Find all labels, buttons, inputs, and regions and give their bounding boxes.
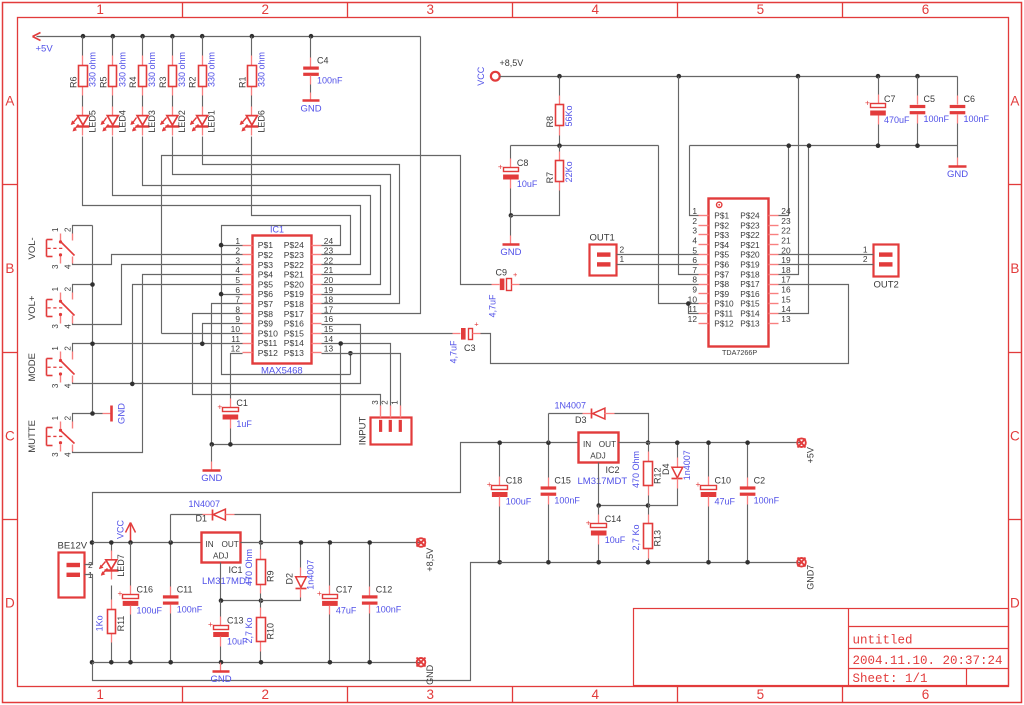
svg-text:1N4007: 1N4007 xyxy=(189,499,221,509)
wire branch to IC1 pin9 xyxy=(203,324,243,344)
wire ADJ IC2 down xyxy=(599,463,649,506)
junction xyxy=(200,34,205,39)
svg-text:C3: C3 xyxy=(464,343,476,353)
svg-text:100nF: 100nF xyxy=(924,114,950,124)
wire D2 bottom to ADJ node xyxy=(261,598,301,601)
svg-text:2: 2 xyxy=(863,254,868,264)
junction xyxy=(675,440,680,445)
svg-text:4: 4 xyxy=(692,236,697,246)
LED LED6 xyxy=(251,96,253,107)
svg-text:P$5: P$5 xyxy=(258,279,274,289)
LED LED5 xyxy=(82,96,84,107)
svg-text:330 ohm: 330 ohm xyxy=(88,52,98,87)
svg-text:2,7 Ko: 2,7 Ko xyxy=(631,524,641,550)
svg-text:B: B xyxy=(5,261,14,276)
svg-text:22: 22 xyxy=(324,255,334,265)
wire VCC to TDA pin7 xyxy=(679,77,699,275)
wire +8,5V rail right part xyxy=(241,542,421,544)
svg-text:P$1: P$1 xyxy=(714,211,729,221)
supply flag +5V xyxy=(797,438,806,447)
resistor R1 330 ohm xyxy=(251,37,253,56)
svg-text:18: 18 xyxy=(781,265,791,275)
svg-text:P$6: P$6 xyxy=(714,260,729,270)
svg-text:12: 12 xyxy=(688,314,698,324)
svg-text:LED3: LED3 xyxy=(147,110,157,133)
svg-text:GND7: GND7 xyxy=(806,565,816,590)
svg-text:OUT2: OUT2 xyxy=(874,280,899,291)
svg-text:D: D xyxy=(1010,595,1020,610)
junction xyxy=(596,503,601,508)
svg-text:P$13: P$13 xyxy=(284,348,304,358)
svg-text:P$12: P$12 xyxy=(258,348,278,358)
svg-text:100nF: 100nF xyxy=(554,495,580,505)
svg-text:5: 5 xyxy=(235,275,240,285)
junction xyxy=(677,74,682,79)
wire C9 to TDA pin8 xyxy=(520,284,699,286)
svg-text:10uF: 10uF xyxy=(517,179,538,189)
capacitor C7 470uF xyxy=(878,77,880,95)
svg-text:22Ko: 22Ko xyxy=(564,161,574,182)
svg-text:P$17: P$17 xyxy=(740,279,760,289)
svg-text:P$20: P$20 xyxy=(284,279,304,289)
svg-text:1n4007: 1n4007 xyxy=(306,560,316,590)
wire R8 node to TDA pins 10 11 xyxy=(659,146,699,304)
svg-text:GND: GND xyxy=(201,473,222,484)
svg-text:P$2: P$2 xyxy=(258,250,274,260)
svg-text:4: 4 xyxy=(235,265,240,275)
wire IC1 pin15 to C3 xyxy=(322,333,453,335)
svg-text:9: 9 xyxy=(692,285,697,295)
svg-text:P$3: P$3 xyxy=(258,260,274,270)
svg-text:C13: C13 xyxy=(227,615,244,625)
svg-text:330 ohm: 330 ohm xyxy=(256,52,266,87)
wire MODE pin2 to IC1 pin11 xyxy=(73,344,243,352)
svg-text:P$10: P$10 xyxy=(258,328,278,338)
junction xyxy=(219,292,224,297)
svg-text:ADJ: ADJ xyxy=(213,552,228,561)
svg-text:P$10: P$10 xyxy=(714,299,734,309)
wire LED to IC1 xyxy=(203,137,400,304)
svg-text:+: + xyxy=(317,588,322,598)
wire D1 right to output xyxy=(235,515,261,543)
switch VOL+ xyxy=(60,293,62,300)
svg-text:R3: R3 xyxy=(158,76,168,88)
svg-text:A: A xyxy=(5,93,14,108)
junction xyxy=(299,540,304,545)
svg-text:330 ohm: 330 ohm xyxy=(177,52,187,87)
capacitor C8 10uF xyxy=(510,146,512,159)
wire +8,5V rail xyxy=(500,76,958,78)
svg-text:untitled: untitled xyxy=(853,634,913,648)
svg-text:8: 8 xyxy=(235,304,240,314)
svg-text:14: 14 xyxy=(781,304,791,314)
svg-text:23: 23 xyxy=(781,216,791,226)
junction xyxy=(130,382,135,387)
junction xyxy=(338,341,343,346)
svg-text:+: + xyxy=(474,319,479,328)
wire +5V rail xyxy=(619,442,802,444)
junction xyxy=(706,440,711,445)
svg-text:4,7uF: 4,7uF xyxy=(488,294,498,318)
svg-text:2: 2 xyxy=(63,346,72,351)
wire IC1 pin8 to INPUT pin3 xyxy=(193,314,381,406)
IC1 pins xyxy=(243,245,253,247)
svg-text:LED7: LED7 xyxy=(116,554,126,577)
wire IC1 pin6 left xyxy=(222,294,243,296)
junction xyxy=(786,143,791,148)
svg-text:D3: D3 xyxy=(575,415,587,425)
svg-text:16: 16 xyxy=(324,314,334,324)
svg-text:47uF: 47uF xyxy=(715,496,736,506)
svg-text:C17: C17 xyxy=(336,584,353,594)
svg-text:1: 1 xyxy=(51,346,60,351)
svg-text:LED5: LED5 xyxy=(88,110,98,133)
svg-text:C15: C15 xyxy=(554,475,571,485)
wire D3 right to output xyxy=(615,414,649,443)
svg-text:2: 2 xyxy=(620,244,625,254)
wire VOL+ pin2 to column xyxy=(73,285,93,293)
svg-text:+8,5V: +8,5V xyxy=(425,548,435,572)
wire VOL+ pin4 to IC1 pin3 xyxy=(73,265,243,325)
wire ADJ down xyxy=(221,563,261,601)
svg-text:P$13: P$13 xyxy=(740,318,760,328)
wire MUTTE pin2 to ground xyxy=(73,414,103,422)
svg-text:10uF: 10uF xyxy=(605,535,626,545)
capacitor C3 4,7uF xyxy=(453,333,461,335)
junction xyxy=(90,411,95,416)
wire OUT1 pin1 to TDA pin6 xyxy=(617,264,699,266)
capacitor C17 47uF xyxy=(329,543,331,586)
diode D3 1N4007 xyxy=(548,414,550,443)
LED LED7 xyxy=(111,543,113,552)
svg-text:1: 1 xyxy=(96,2,104,17)
wire IC1 pin14 row to INPUT pin2 xyxy=(322,344,391,406)
svg-text:4: 4 xyxy=(63,324,72,329)
junction xyxy=(200,342,205,347)
junction xyxy=(219,243,224,248)
capacitor C12 100nF xyxy=(369,543,371,587)
capacitor C11 100nF xyxy=(170,543,172,587)
junction xyxy=(259,660,264,665)
junction xyxy=(509,213,514,218)
junction xyxy=(210,442,215,447)
junction xyxy=(706,560,711,565)
svg-text:3: 3 xyxy=(692,226,697,236)
junction xyxy=(128,660,133,665)
junction xyxy=(557,74,562,79)
junction xyxy=(876,143,881,148)
capacitor C5 100nF xyxy=(917,77,919,96)
resistor R6 330 ohm xyxy=(82,37,84,56)
svg-text:C11: C11 xyxy=(177,584,193,594)
svg-text:P$7: P$7 xyxy=(714,269,729,279)
svg-text:1: 1 xyxy=(51,227,60,232)
svg-text:+8,5V: +8,5V xyxy=(500,58,524,68)
svg-text:GND: GND xyxy=(425,664,435,685)
junction xyxy=(259,598,264,603)
svg-text:10: 10 xyxy=(231,324,241,334)
svg-text:P$22: P$22 xyxy=(740,230,760,240)
wire TDA pin11 branch xyxy=(689,304,699,314)
svg-text:3: 3 xyxy=(426,2,434,17)
diode D1 1N4007 xyxy=(170,515,172,543)
svg-text:P$14: P$14 xyxy=(740,309,760,319)
wire IC1 pin7 to ground row xyxy=(212,304,243,445)
svg-text:1N4007: 1N4007 xyxy=(555,401,587,411)
svg-text:IN: IN xyxy=(206,540,214,549)
wire wiper net riser x162 xyxy=(162,156,492,334)
svg-text:OUT: OUT xyxy=(222,540,239,549)
resistor R9 470 Ohm xyxy=(260,543,262,550)
svg-text:2: 2 xyxy=(63,415,72,420)
wire LED to IC1 xyxy=(173,137,391,295)
wire R7 bottom to C8 xyxy=(511,191,560,216)
frame row ticks left xyxy=(3,184,18,186)
svg-text:24: 24 xyxy=(781,206,791,216)
svg-text:BE12V: BE12V xyxy=(58,541,88,552)
svg-text:C14: C14 xyxy=(605,514,622,524)
svg-text:3: 3 xyxy=(51,324,60,329)
svg-text:2: 2 xyxy=(261,687,269,702)
resistor R8 56Ko xyxy=(559,77,561,96)
svg-text:19: 19 xyxy=(324,285,334,295)
resistor R3 330 ohm xyxy=(172,37,174,56)
svg-text:1uF: 1uF xyxy=(236,419,252,429)
svg-text:P$23: P$23 xyxy=(740,220,760,230)
svg-text:1: 1 xyxy=(391,400,400,405)
svg-text:470 Ohm: 470 Ohm xyxy=(244,549,254,586)
svg-text:P$4: P$4 xyxy=(714,240,729,250)
junction xyxy=(219,598,224,603)
svg-text:P$22: P$22 xyxy=(284,260,304,270)
wire IC1 pin12 to C1 xyxy=(231,354,243,399)
svg-text:C5: C5 xyxy=(924,94,936,104)
wire MUTTE pin4 to IC1 pin4 xyxy=(73,275,243,453)
junction xyxy=(646,503,651,508)
svg-text:6: 6 xyxy=(692,255,697,265)
svg-text:P$1: P$1 xyxy=(258,240,274,250)
junction xyxy=(228,442,233,447)
resistor R2 330 ohm xyxy=(202,37,204,56)
supply flag GND PSU1 xyxy=(417,658,426,667)
svg-text:P$18: P$18 xyxy=(284,299,304,309)
diode D2 1n4007 xyxy=(300,543,302,568)
wire wiper to IC1 pin10 left xyxy=(162,333,243,335)
svg-text:17: 17 xyxy=(324,304,334,314)
svg-text:330 ohm: 330 ohm xyxy=(117,52,127,87)
junction xyxy=(90,540,95,545)
svg-text:5: 5 xyxy=(757,687,765,702)
svg-text:5: 5 xyxy=(692,245,697,255)
wire +5V down to IC1 pin17 xyxy=(322,37,421,314)
junction xyxy=(367,540,372,545)
svg-text:6: 6 xyxy=(922,2,930,17)
junction xyxy=(140,34,145,39)
junction xyxy=(348,351,353,356)
svg-text:D2: D2 xyxy=(285,573,295,585)
svg-text:21: 21 xyxy=(781,236,791,246)
svg-text:+: + xyxy=(217,401,222,411)
svg-text:+: + xyxy=(586,517,591,527)
svg-text:P$15: P$15 xyxy=(284,328,304,338)
svg-text:C8: C8 xyxy=(517,158,529,168)
svg-text:C9: C9 xyxy=(496,268,508,278)
svg-text:24: 24 xyxy=(324,236,334,246)
svg-text:9: 9 xyxy=(235,314,240,324)
ground below C1 row xyxy=(211,445,213,462)
svg-text:P$9: P$9 xyxy=(714,289,729,299)
svg-text:+: + xyxy=(513,270,518,279)
svg-text:+: + xyxy=(208,619,213,629)
wire ground rail xyxy=(93,662,421,664)
junction xyxy=(745,440,750,445)
wire LED to IC1 xyxy=(83,137,361,265)
svg-text:GND: GND xyxy=(947,169,968,180)
diode D4 1n4007 xyxy=(677,443,679,458)
svg-text:1: 1 xyxy=(620,254,625,264)
svg-text:R8: R8 xyxy=(545,116,555,128)
junction xyxy=(259,540,264,545)
svg-text:TDA7266P: TDA7266P xyxy=(722,348,757,357)
svg-text:20: 20 xyxy=(324,275,334,285)
connector OUT2 xyxy=(874,245,899,277)
svg-text:11: 11 xyxy=(688,304,697,314)
svg-text:C16: C16 xyxy=(137,584,154,594)
capacitor C10 47uF xyxy=(708,443,710,477)
LED LED2 xyxy=(172,96,174,107)
svg-text:15: 15 xyxy=(781,294,791,304)
svg-text:P$19: P$19 xyxy=(740,260,760,270)
svg-text:P$24: P$24 xyxy=(740,211,760,221)
junction xyxy=(915,143,920,148)
resistor R5 330 ohm xyxy=(112,37,114,56)
svg-text:GND: GND xyxy=(117,403,128,424)
svg-text:R5: R5 xyxy=(98,76,108,88)
junction xyxy=(168,660,173,665)
wire +12V rail left part xyxy=(93,542,202,544)
wire VCC to TDA pin18 xyxy=(779,77,799,275)
svg-text:100uF: 100uF xyxy=(506,496,532,506)
svg-text:P$8: P$8 xyxy=(258,309,274,319)
wire C3 to TDA pin17 xyxy=(481,285,849,364)
capacitor C4 100nF xyxy=(310,37,312,58)
svg-text:100nF: 100nF xyxy=(376,604,402,614)
TDA7266P pins xyxy=(699,215,709,217)
svg-text:P$11: P$11 xyxy=(258,338,278,348)
junction xyxy=(109,540,114,545)
svg-text:B: B xyxy=(1010,261,1019,276)
junction xyxy=(109,660,114,665)
junction xyxy=(168,540,173,545)
svg-text:3: 3 xyxy=(51,383,60,388)
wire D4 bottom to ADJ node xyxy=(649,489,678,506)
svg-text:P$16: P$16 xyxy=(284,319,304,329)
svg-text:R7: R7 xyxy=(545,172,555,184)
svg-text:+: + xyxy=(498,161,503,171)
capacitor C14 10uF xyxy=(598,506,600,515)
svg-text:330 ohm: 330 ohm xyxy=(207,52,217,87)
LED LED3 xyxy=(142,96,144,107)
svg-text:P$8: P$8 xyxy=(714,279,729,289)
junction xyxy=(328,660,333,665)
svg-text:VOL-: VOL- xyxy=(27,237,38,259)
wire IC1 pin1 left xyxy=(222,245,243,247)
svg-text:VCC: VCC xyxy=(116,520,126,540)
svg-text:4,7uF: 4,7uF xyxy=(449,340,459,364)
capacitor C16 100uF xyxy=(130,543,132,586)
svg-text:2: 2 xyxy=(63,286,72,291)
wire LED to IC1 xyxy=(252,137,351,255)
wire switch column vertical xyxy=(92,226,94,414)
junction xyxy=(915,74,920,79)
svg-text:12: 12 xyxy=(231,344,241,354)
svg-text:P$9: P$9 xyxy=(258,319,274,329)
svg-text:1: 1 xyxy=(96,687,104,702)
svg-text:5: 5 xyxy=(757,2,765,17)
svg-text:IC2: IC2 xyxy=(606,465,620,475)
op-amp IC1 MAX5468 body xyxy=(253,236,312,364)
svg-text:R9: R9 xyxy=(266,570,276,582)
wire C8 bottom xyxy=(510,189,512,216)
svg-text:ADJ: ADJ xyxy=(590,452,605,461)
junction xyxy=(646,440,651,445)
svg-text:+: + xyxy=(865,97,870,107)
junction xyxy=(497,560,502,565)
junction xyxy=(81,34,86,39)
svg-text:LED2: LED2 xyxy=(177,110,187,133)
wire branch to IC1 pin5 xyxy=(133,285,243,384)
ground below C8 xyxy=(510,236,512,244)
svg-text:+: + xyxy=(487,479,492,489)
svg-text:OUT: OUT xyxy=(599,440,616,449)
capacitor C9 4,7uF xyxy=(492,284,500,286)
svg-text:2: 2 xyxy=(692,216,697,226)
svg-text:100nF: 100nF xyxy=(317,76,343,86)
svg-text:1Ko: 1Ko xyxy=(94,615,104,631)
svg-text:1: 1 xyxy=(235,236,240,246)
svg-text:2: 2 xyxy=(63,227,72,232)
svg-text:+: + xyxy=(696,479,701,489)
svg-text:+5V: +5V xyxy=(36,44,54,55)
capacitor C6 100nF xyxy=(957,77,959,96)
capacitor C15 100nF xyxy=(548,443,550,478)
svg-text:P$5: P$5 xyxy=(714,250,729,260)
svg-text:P$24: P$24 xyxy=(284,240,304,250)
svg-text:LED6: LED6 xyxy=(256,110,266,133)
junction xyxy=(546,440,551,445)
wire VOL- pin2 to column xyxy=(73,226,93,234)
svg-text:14: 14 xyxy=(324,334,334,344)
svg-text:P$12: P$12 xyxy=(714,318,734,328)
svg-text:R13: R13 xyxy=(653,530,663,547)
junction xyxy=(876,74,881,79)
ground at switches xyxy=(103,413,111,415)
svg-text:4: 4 xyxy=(63,383,72,388)
svg-text:C6: C6 xyxy=(964,94,976,104)
frame row ticks right xyxy=(1009,184,1022,186)
svg-text:13: 13 xyxy=(781,314,791,324)
svg-text:C4: C4 xyxy=(317,56,329,66)
amplifier IC TDA7266P body xyxy=(709,199,769,347)
svg-text:1: 1 xyxy=(51,415,60,420)
svg-text:C2: C2 xyxy=(754,475,766,485)
resistor R10 2,7 Ko xyxy=(260,601,262,608)
svg-text:IC1: IC1 xyxy=(229,565,243,575)
svg-text:P$7: P$7 xyxy=(258,299,274,309)
junction xyxy=(796,74,801,79)
svg-text:1: 1 xyxy=(51,286,60,291)
regulator IC1 LM317MDT body xyxy=(202,533,241,563)
